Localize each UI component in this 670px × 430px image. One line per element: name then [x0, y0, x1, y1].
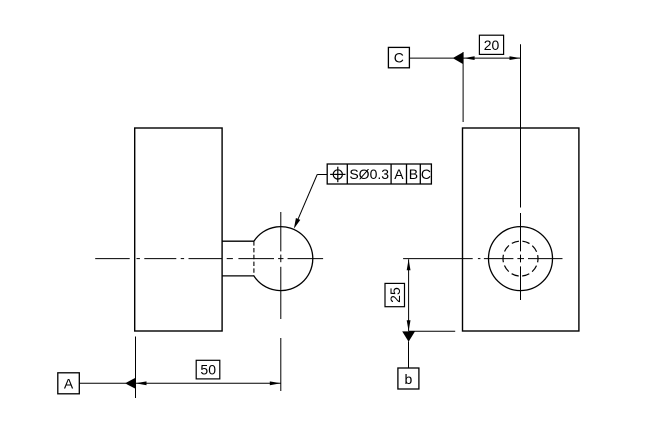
datum C filled triangle — [453, 52, 463, 64]
extension line left edge for dim 50 — [135, 337, 137, 399]
leader from feature control frame to ball — [294, 175, 327, 229]
stem bottom edge — [222, 275, 254, 277]
datum C leader line — [409, 57, 453, 59]
datum b extension line — [409, 330, 455, 332]
dimension 20 line with arrows — [463, 56, 520, 60]
svg-text:25: 25 — [387, 287, 403, 303]
datum b filled triangle — [402, 331, 415, 341]
position symbol — [330, 167, 345, 183]
svg-text:b: b — [405, 371, 413, 387]
feature control frame — [327, 164, 431, 184]
ball neck hidden edge dashed — [253, 241, 255, 276]
hole circle solid — [489, 227, 553, 291]
right view vertical centerline upper — [520, 44, 522, 207]
datum C box — [388, 47, 409, 67]
right view body rectangle — [463, 128, 579, 331]
extension line ball center for dim 50 — [280, 338, 282, 391]
datum A leader line — [79, 382, 126, 384]
svg-text:C: C — [394, 50, 404, 66]
tolerance value SØ0.3 — [349, 166, 389, 182]
stem top edge — [222, 240, 254, 242]
datum reference B — [409, 166, 418, 182]
datum b leader line — [408, 342, 410, 369]
dimension 50 label — [196, 360, 220, 379]
svg-text:50: 50 — [200, 362, 216, 378]
datum A box — [58, 373, 80, 394]
left view vertical centerline through ball — [280, 212, 282, 319]
svg-text:C: C — [421, 166, 431, 182]
svg-text:B: B — [409, 166, 418, 182]
svg-text:20: 20 — [484, 37, 500, 53]
datum A filled triangle — [125, 378, 136, 389]
ball circle arc — [254, 227, 313, 291]
svg-text:A: A — [64, 375, 74, 391]
dimension 25 line with arrows — [407, 259, 411, 331]
left view horizontal centerline — [95, 258, 323, 260]
extension line datum C for dim 20 — [462, 52, 464, 122]
datum reference A — [394, 166, 404, 182]
dimension 25 label rotated — [385, 283, 405, 306]
left view body rectangle — [135, 128, 222, 331]
svg-text:A: A — [394, 166, 404, 182]
right view horizontal centerline — [403, 258, 562, 260]
hidden circle dashed — [503, 241, 538, 276]
dimension 20 label — [479, 35, 503, 54]
svg-text:SØ0.3: SØ0.3 — [349, 166, 389, 182]
dimension 50 line with arrows — [136, 381, 281, 385]
datum reference C — [421, 166, 431, 182]
right view vertical centerline through circle — [520, 213, 522, 300]
datum b box — [398, 368, 419, 389]
